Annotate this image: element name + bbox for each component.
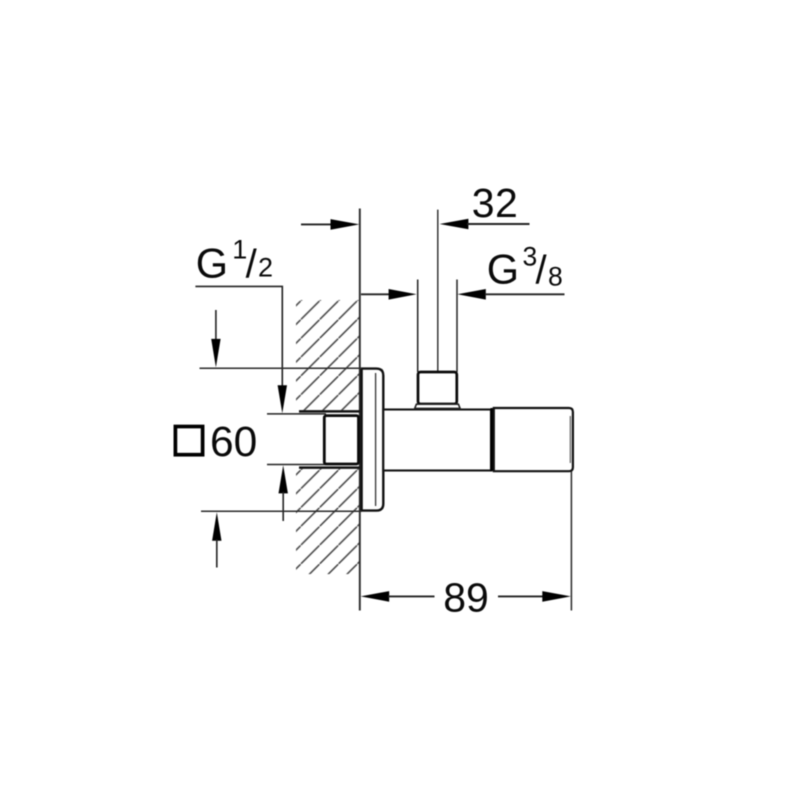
svg-text:89: 89	[443, 574, 489, 620]
dim 89 left arrow	[361, 591, 390, 602]
wall hole top bold line	[299, 410, 360, 413]
inlet union nut	[324, 416, 358, 464]
svg-text:60: 60	[210, 419, 257, 466]
svg-text:/: /	[536, 248, 548, 292]
svg-text:2: 2	[258, 253, 273, 283]
outlet end inner line	[569, 416, 571, 463]
svg-text:G: G	[196, 240, 228, 287]
outlet spout	[494, 408, 573, 471]
wall-plate rosette	[362, 369, 384, 511]
top union nut	[418, 372, 457, 404]
dim 89 right extension line	[570, 472, 572, 611]
top nut flange	[415, 404, 460, 408]
wall hatch upper	[296, 300, 359, 410]
dim 32: left arrow to wall face	[301, 223, 332, 225]
svg-text:/: /	[246, 243, 258, 287]
rosette inner edge line	[375, 373, 377, 506]
G1/2 label leader line	[195, 286, 282, 386]
wall hole bottom bold line	[299, 466, 360, 469]
dim 32: right arrow to center line	[440, 219, 469, 230]
G1/2 down arrow to pipe top	[278, 385, 287, 413]
top pipe right edge	[456, 280, 458, 373]
G1/2 up arrow to pipe bottom	[279, 465, 288, 493]
dim 60 top extension line	[200, 367, 362, 369]
svg-text:G: G	[487, 245, 519, 292]
wall hatch lower	[296, 469, 359, 574]
svg-text:8: 8	[548, 262, 563, 292]
dim 60 up arrow	[212, 512, 221, 541]
dim 60 bottom extension line	[201, 510, 362, 512]
dim 89 right arrow	[498, 595, 544, 597]
top pipe center line	[437, 210, 439, 371]
top pipe left edge	[417, 280, 419, 373]
square symbol of label 60	[175, 427, 202, 455]
valve body	[383, 410, 491, 471]
dim G3/8: right arrow to pipe edge	[457, 289, 485, 300]
wall face line	[359, 209, 361, 611]
svg-text:32: 32	[472, 180, 519, 226]
inlet pipe top edge	[267, 413, 326, 415]
dim G3/8: left arrow to pipe edge	[361, 293, 390, 295]
dim 60 down arrow	[215, 310, 217, 340]
inlet pipe bottom edge	[267, 464, 326, 466]
body/outlet bold divider	[491, 408, 494, 471]
